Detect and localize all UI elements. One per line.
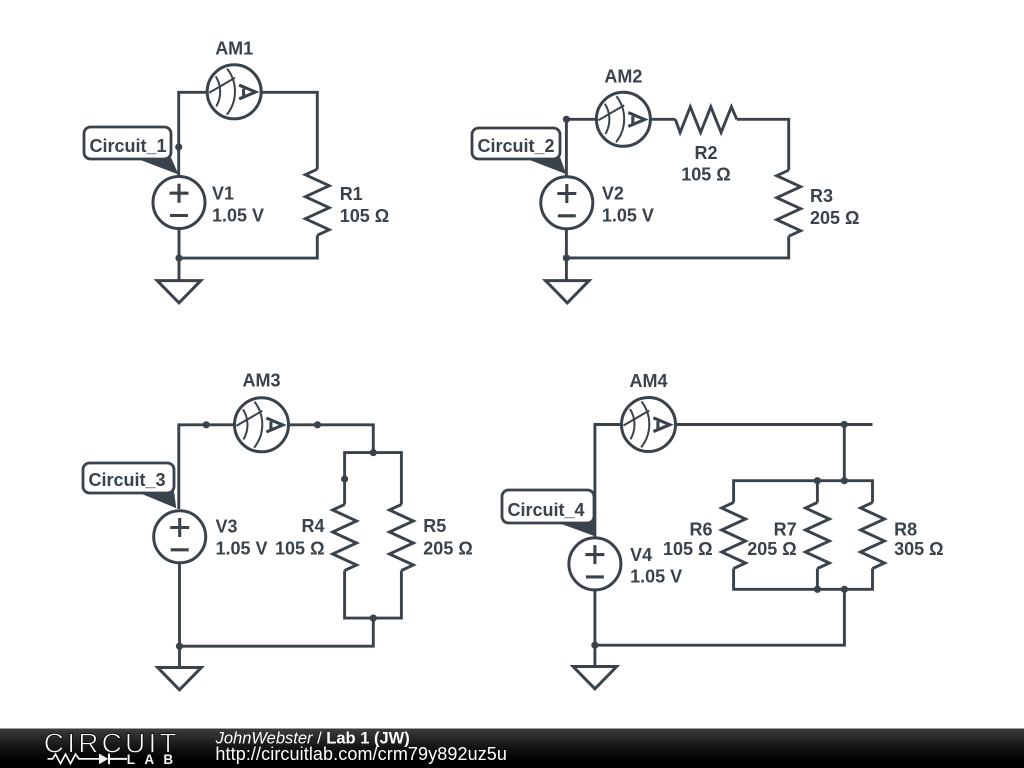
node dot circuit4 rail bottom mid (814, 586, 821, 593)
node label Circuit_2 (472, 128, 566, 174)
wire circuit1 bottom (179, 235, 317, 258)
ground circuit3 (158, 668, 202, 690)
label R6 value (663, 520, 712, 559)
resistor R3 (777, 170, 801, 236)
voltage source V3 (154, 511, 206, 563)
voltage source V2 (541, 177, 593, 229)
wire circuit3 top (179, 425, 373, 509)
label R4 value (275, 516, 324, 559)
svg-text:AM4: AM4 (629, 371, 667, 391)
ground circuit2 (546, 281, 590, 303)
ammeter AM4 (622, 398, 676, 452)
node label Circuit_4 (502, 490, 595, 536)
wire circuit3 top rail (345, 453, 402, 505)
node dot circuit4 rail top mid (814, 477, 821, 484)
svg-text:1.05 V: 1.05 V (602, 206, 654, 226)
svg-text:305 Ω: 305 Ω (894, 539, 943, 559)
node dot circuit3 branch (341, 475, 348, 482)
wire circuit4 V4 to ground (593, 589, 596, 667)
svg-text:205 Ω: 205 Ω (747, 539, 796, 559)
label V4 value (630, 545, 682, 587)
ammeter AM2 (596, 92, 650, 146)
node dot circuit2 upper (563, 116, 570, 123)
svg-text:R6: R6 (689, 520, 712, 540)
node label Circuit_3 (83, 463, 176, 508)
resistor R4 (333, 505, 357, 571)
svg-text:AM2: AM2 (604, 67, 642, 87)
label R5 value (423, 516, 472, 559)
svg-text:R3: R3 (810, 186, 833, 206)
svg-text:V2: V2 (602, 183, 624, 203)
svg-text:105 Ω: 105 Ω (681, 165, 730, 185)
resistor R8 (861, 503, 885, 569)
svg-text:Circuit_4: Circuit_4 (508, 500, 585, 520)
svg-text:AM3: AM3 (242, 371, 280, 391)
node dot circuit1 lower (175, 255, 182, 262)
ground circuit4 (573, 667, 617, 689)
wire circuit4 drop (595, 589, 845, 645)
wire circuit2 V2 to ground (565, 229, 568, 280)
CircuitLab logo resistor squiggle (48, 754, 100, 763)
node dot circuit1 upper (175, 143, 182, 150)
svg-text:1.05 V: 1.05 V (212, 206, 264, 226)
label R1 value (340, 184, 389, 226)
CircuitLab logo diode bar and wire (109, 754, 127, 765)
resistor R5 (389, 505, 413, 571)
label R8 value (894, 520, 943, 559)
wire circuit4 top rail (734, 481, 873, 503)
resistor R6 (722, 503, 746, 569)
label R7 value (747, 520, 796, 559)
wire circuit3 bottom (180, 618, 374, 646)
wire circuit3 V3 to ground (178, 562, 181, 668)
wire circuit4 bottom rail (734, 569, 873, 590)
svg-text:V4: V4 (630, 545, 652, 565)
node dot circuit4 rail top (841, 477, 848, 484)
node dot circuit3 rail bottom (370, 615, 377, 622)
wire circuit2 right (737, 119, 789, 170)
node dot circuit3 rail top (370, 449, 377, 456)
ammeter AM3 (235, 398, 289, 452)
footer bar (0, 729, 1024, 768)
voltage source V1 (153, 177, 205, 229)
node dot circuit4 rail bottom (841, 586, 848, 593)
wire circuit3 bottom rail (345, 571, 402, 619)
svg-text:R2: R2 (694, 143, 717, 163)
wire circuit4 feed (843, 425, 846, 481)
resistor R7 (805, 503, 829, 569)
label R3 value (810, 186, 859, 228)
node dot circuit3 top-left (203, 421, 210, 428)
svg-text:105 Ω: 105 Ω (275, 539, 324, 559)
label V2 value (602, 183, 654, 225)
node dot circuit3 top-right (314, 421, 321, 428)
wire circuit4 top (595, 425, 873, 538)
CircuitLab logo diode (99, 754, 108, 765)
wire circuit1 V1 to ground (178, 229, 181, 281)
ammeter AM1 (207, 65, 261, 119)
svg-text:Circuit_3: Circuit_3 (89, 470, 166, 490)
node dot circuit4 lower (591, 642, 598, 649)
svg-text:205 Ω: 205 Ω (423, 539, 472, 559)
svg-text:105 Ω: 105 Ω (663, 539, 712, 559)
svg-text:V1: V1 (212, 183, 234, 203)
svg-text:R1: R1 (340, 184, 363, 204)
svg-text:R4: R4 (301, 516, 324, 536)
wire circuit2 bottom (566, 236, 788, 258)
svg-text:1.05 V: 1.05 V (216, 539, 268, 559)
wire circuit1 top/left loop (179, 92, 318, 176)
node label Circuit_1 (84, 127, 179, 175)
wire circuit2 top (566, 119, 675, 176)
node dot circuit3 lower (176, 643, 183, 650)
svg-text:R8: R8 (894, 520, 917, 540)
svg-text:1.05 V: 1.05 V (630, 567, 682, 587)
resistor R1 (305, 169, 329, 235)
node dot circuit4 top (841, 421, 848, 428)
svg-text:105 Ω: 105 Ω (340, 206, 389, 226)
wire circuit4 mid branch top (816, 481, 819, 503)
label R2 value (681, 143, 730, 185)
svg-text:R7: R7 (774, 520, 797, 540)
label V3 value (216, 517, 268, 559)
svg-text:Circuit_1: Circuit_1 (90, 136, 167, 156)
label V1 value (212, 183, 264, 225)
resistor R2 (675, 107, 737, 133)
node dot circuit2 lower (563, 254, 570, 261)
svg-text:http://circuitlab.com/crm79y89: http://circuitlab.com/crm79y892uz5u (215, 744, 507, 764)
voltage source V4 (569, 538, 621, 590)
svg-text:V3: V3 (216, 517, 238, 537)
svg-text:AM1: AM1 (215, 39, 253, 59)
ground circuit1 (157, 281, 201, 303)
svg-text:R5: R5 (423, 516, 446, 536)
svg-text:Circuit_2: Circuit_2 (478, 136, 555, 156)
wire circuit4 mid branch bottom (816, 569, 819, 590)
svg-text:205 Ω: 205 Ω (810, 208, 859, 228)
svg-text:LAB: LAB (127, 752, 183, 767)
